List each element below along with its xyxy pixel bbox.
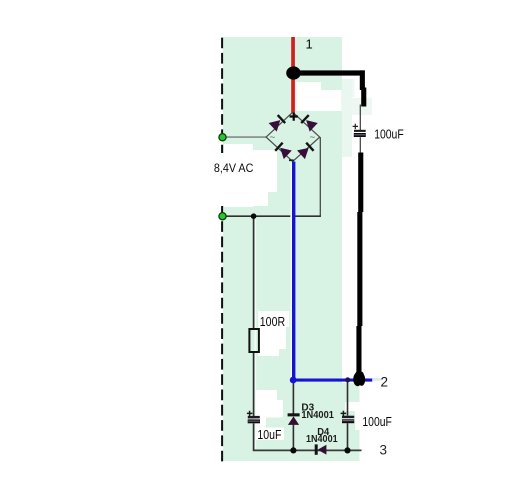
svg-text:1N4001: 1N4001	[301, 410, 334, 421]
mint extension bottom right	[342, 383, 360, 461]
blue wire vertical (negative rail)	[292, 162, 295, 381]
svg-text:2: 2	[381, 375, 389, 390]
node 1 dot (hand drawn)	[286, 66, 301, 79]
wire resistor to 10uF	[253, 352, 255, 417]
thick black wire horizontal from node 1	[293, 70, 365, 75]
svg-text:1N4001: 1N4001	[306, 434, 338, 445]
junction dot bottom rail right	[344, 447, 350, 453]
svg-text:100uF: 100uF	[374, 127, 404, 141]
wire resistor branch upper	[253, 216, 255, 329]
bottom rail wire	[253, 449, 362, 451]
diode D3 (vertical)	[288, 413, 300, 425]
red wire (positive AC feed)	[291, 37, 295, 113]
svg-text:100uF: 100uF	[362, 415, 392, 429]
svg-text:3: 3	[380, 443, 388, 458]
thick black wire vertical top B	[361, 88, 366, 107]
thick black wire vertical top A	[360, 70, 365, 90]
schematic highlight region (mint)	[223, 37, 342, 461]
capacitor C2 100uF (bottom)	[341, 411, 355, 423]
dashed boundary line	[221, 38, 223, 462]
junction dot bottom rail left	[290, 447, 296, 453]
wire 10uF to bottom rail	[253, 423, 255, 451]
svg-text:~: ~	[270, 133, 276, 144]
white notch right of wires below node 1	[297, 82, 322, 91]
wire D3 top lead	[292, 381, 294, 414]
junction dot at resistor branch	[251, 213, 257, 219]
thick black wire vertical low	[356, 326, 361, 377]
resistor R1 100R	[249, 329, 259, 352]
bridge diode upper-left	[269, 114, 287, 132]
white label box 10uF	[256, 428, 284, 441]
terminal T2 (green)	[219, 213, 226, 220]
white patch behind 8,4V AC	[206, 144, 277, 207]
erase halo along resistor branch	[254, 217, 256, 449]
navy junction dot at cap branch	[345, 377, 350, 382]
diode D4 (horizontal, pointing left)	[315, 444, 327, 454]
thick black wire vertical mid 2	[357, 212, 362, 326]
white label box 100uF (top)	[371, 119, 406, 143]
capacitor C3 10uF	[247, 411, 260, 424]
wire cap C2 branch (node 2 down to bottom rail)	[347, 380, 349, 416]
svg-text:100R: 100R	[260, 315, 285, 329]
bridge diode lower-right	[297, 142, 315, 160]
node 2 blob (hand drawn)	[353, 371, 365, 386]
blue junction dot	[290, 377, 297, 384]
faint blue smear right of node 2	[372, 378, 381, 381]
capacitor C1 100uF (top)	[353, 124, 366, 137]
white label box 100R	[258, 311, 289, 356]
bridge rectifier diamond outline	[266, 112, 320, 161]
mint light strip right of column (top)	[342, 79, 352, 157]
terminal T1 (green)	[219, 134, 226, 141]
blue wire horizontal to node 2	[293, 379, 372, 382]
svg-text:10uF: 10uF	[257, 428, 281, 442]
white label box 100uF (bottom)	[345, 402, 365, 411]
wire top cap C1 leads	[359, 105, 361, 131]
erase halo along blue rail	[290, 163, 292, 378]
svg-text:~: ~	[310, 133, 316, 144]
bridge + label	[290, 113, 298, 121]
wire D3 bottom lead	[292, 425, 294, 451]
svg-text:8,4V AC: 8,4V AC	[214, 163, 254, 175]
bridge - label	[289, 159, 294, 161]
wire AC bottom (terminal to bridge branch)	[222, 215, 321, 217]
white patch above 10uF	[255, 390, 284, 428]
bridge diode upper-right	[300, 114, 318, 132]
thick black wire vertical mid 1	[358, 153, 363, 213]
wire bridge right corner down	[319, 137, 321, 216]
bridge diode lower-left	[274, 142, 292, 160]
wire AC top (terminal to bridge left corner)	[222, 136, 266, 138]
svg-text:1: 1	[306, 36, 313, 51]
